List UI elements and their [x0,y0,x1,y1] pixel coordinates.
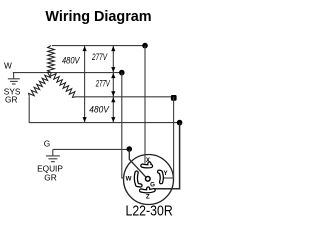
dimension line 480V overall (dim A) [83,46,87,122]
transformer winding T2 left (phase Z leg) [29,72,51,97]
wire Y drop vertical [173,97,175,178]
svg-text:Z: Z [146,193,150,200]
wire X drop vertical [144,46,146,164]
svg-text:480V: 480V [62,55,80,65]
svg-text:G: G [44,139,50,149]
junction dot node G [127,146,133,152]
wire L1 phase X horizontal [52,45,145,47]
wire L4 phase Z horizontal [29,122,180,124]
slot Y (right) [159,172,162,183]
slot X (top) [142,164,151,167]
wire Z drop and bottom jog [155,123,180,189]
junction dot node Y [171,95,177,101]
wire G vertical then diagonal [129,149,146,177]
junction dot node W [119,70,125,76]
svg-text:L22-30R: L22-30R [126,204,173,220]
wire W drop vertical [122,73,124,178]
dimension line stack (dim B) [111,46,115,122]
transformer winding T1 vertical (phase X leg) [48,46,55,73]
svg-text:W: W [126,175,132,182]
svg-text:G: G [150,181,155,188]
wire Y stub [163,177,174,179]
junction dot node Z [177,120,183,126]
wire left winding drop [28,97,30,123]
svg-text:GR: GR [44,172,56,182]
svg-text:W: W [4,61,12,71]
svg-text:Wiring Diagram: Wiring Diagram [45,9,151,25]
G pin [146,177,151,182]
slot W (left) [136,173,141,186]
slot Z (bottom) [141,189,154,192]
ground symbol EQUIP GR [46,149,60,161]
svg-text:480V: 480V [89,104,109,114]
svg-text:GR: GR [5,95,17,105]
svg-text:277V: 277V [91,52,107,62]
receptacle outline U1 [124,155,174,205]
wire L5 equipment ground horizontal [53,148,130,150]
transformer winding T3 right (phase Y leg) [51,73,76,98]
ground symbol SYS GR [8,73,20,84]
wire L3 phase Y horizontal [76,96,174,98]
wire L2 neutral W horizontal [13,72,122,74]
junction dot node X [142,43,148,49]
svg-text:277V: 277V [95,78,110,88]
